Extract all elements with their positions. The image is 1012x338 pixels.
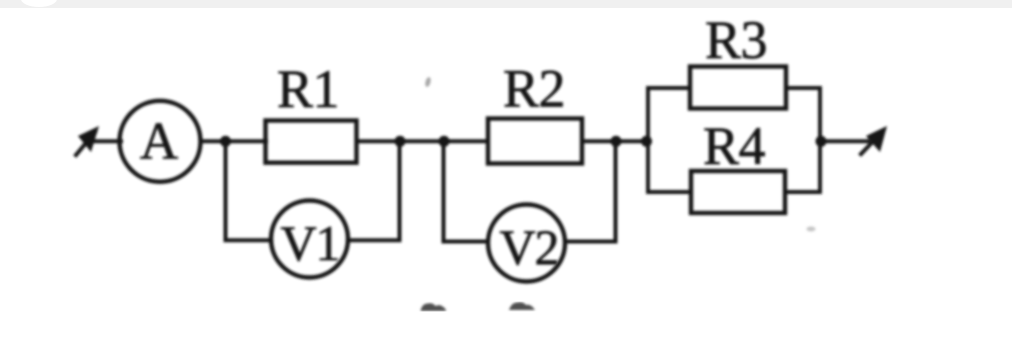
svg-text:A: A (140, 113, 178, 171)
svg-text:R2: R2 (503, 59, 565, 119)
svg-text:V1: V1 (280, 215, 339, 271)
svg-text:R3: R3 (705, 10, 767, 70)
svg-text:R4: R4 (703, 116, 766, 176)
svg-text:R1: R1 (277, 59, 339, 119)
svg-text:V2: V2 (499, 219, 558, 275)
